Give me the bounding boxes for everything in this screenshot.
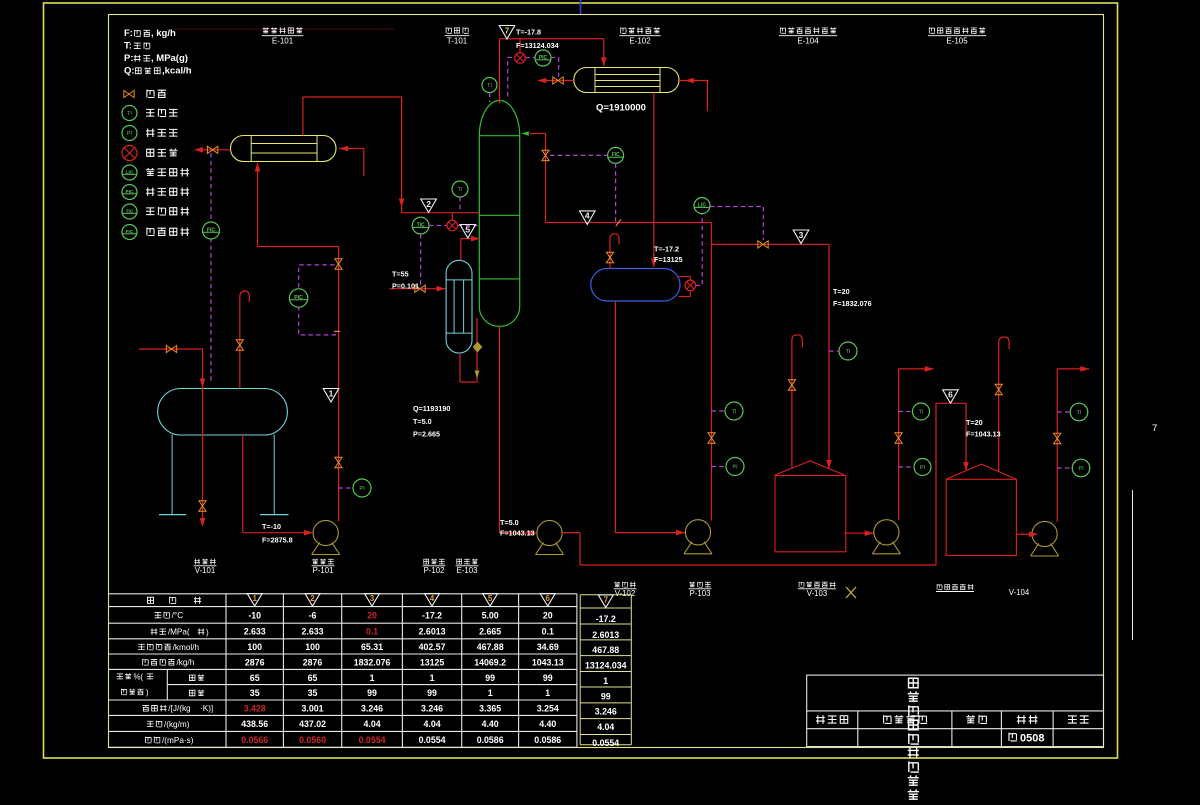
signal TI to feed line [459, 197, 461, 213]
gauge TI on P-103 riser [725, 402, 743, 420]
svg-text:7: 7 [604, 595, 609, 604]
svg-text:): ) [146, 688, 149, 697]
arrow on feed downcomer [399, 199, 405, 208]
signal PI to riser [339, 487, 354, 489]
svg-text:TI: TI [846, 349, 851, 355]
gauge PI on P-103 riser [726, 458, 744, 476]
svg-text:65: 65 [250, 673, 260, 683]
svg-text:V-102: V-102 [615, 589, 635, 598]
label T-101 distillation column [446, 27, 468, 33]
svg-text:0.1: 0.1 [542, 627, 554, 637]
svg-text:LIC: LIC [126, 169, 134, 175]
svg-text:0.1: 0.1 [366, 627, 378, 637]
E-101 tube lines [251, 143, 317, 145]
arrow into E-101 right end [339, 146, 348, 152]
label V-104 bottoms product tank [937, 584, 973, 590]
svg-text:2.633: 2.633 [302, 627, 324, 637]
label V-102 reflux drum [614, 582, 635, 588]
stream marker 4 [580, 211, 596, 225]
svg-text:FIC: FIC [207, 227, 215, 233]
pipe V-104 to P-105 [1016, 533, 1032, 535]
stream marker 2 [421, 199, 437, 213]
transmitter on feed TIC loop [447, 220, 458, 231]
svg-text:P-102: P-102 [424, 566, 445, 575]
svg-text:F=1043.13: F=1043.13 [966, 430, 1001, 439]
svg-text:99: 99 [543, 673, 553, 683]
pump P-105 [1032, 521, 1057, 546]
label E-104 overhead product cooler [780, 27, 836, 33]
svg-text:/(mPa·s): /(mPa·s) [162, 736, 194, 745]
svg-text:14069.2: 14069.2 [474, 657, 506, 667]
gauge TI on feed line [452, 181, 468, 197]
valve on P-101 riser lower [335, 457, 342, 467]
svg-text:65: 65 [308, 673, 318, 683]
svg-text:0.0554: 0.0554 [359, 735, 386, 745]
pipe column bottoms to reboiler loop [476, 318, 478, 382]
svg-text:V-104: V-104 [1009, 588, 1030, 597]
pipe E-102 condensate to V-102 [653, 93, 655, 268]
arrow refrigerant into E-102 [685, 78, 694, 84]
arrow overhead into E-102 [601, 57, 607, 66]
legend transmitter [122, 146, 137, 161]
legend TIC temperature control [122, 204, 137, 219]
valve on raw feed line [166, 345, 176, 352]
arrow into P-103 [676, 530, 685, 536]
arrow into P-104 [865, 530, 874, 536]
controller TIC feed [412, 217, 429, 234]
svg-text:4: 4 [585, 211, 590, 221]
arrow into P-101 [304, 530, 313, 536]
svg-text:3.246: 3.246 [421, 703, 443, 713]
label P-102 bottoms pump [424, 559, 445, 565]
arrow bottoms into V-104 roof [963, 462, 969, 471]
svg-text:E-104: E-104 [797, 37, 819, 46]
stream table grid [109, 593, 577, 595]
controller FIC reflux [608, 147, 624, 163]
svg-text:V-101: V-101 [195, 566, 215, 575]
signal TI to P-104 riser [899, 411, 913, 413]
legend valve symbol [124, 90, 134, 97]
legend PI pressure gauge [122, 126, 137, 141]
svg-text:402.57: 402.57 [419, 642, 446, 652]
arrow condensate into V-102 [651, 259, 657, 268]
svg-text:0.0554: 0.0554 [419, 735, 446, 745]
arrow feed into V-101 [200, 379, 206, 388]
valve on P-101 riser upper [335, 259, 342, 269]
legend PIC pressure control [122, 185, 137, 200]
svg-text:, MPa(g): , MPa(g) [151, 53, 188, 64]
E-103 tube sheets [446, 279, 472, 281]
svg-text:4.40: 4.40 [482, 719, 499, 729]
svg-text:,kcal/h: ,kcal/h [162, 66, 192, 77]
signal TI to P-105 riser [1057, 411, 1070, 413]
pipe V-102 to P-103 suction [614, 301, 616, 533]
valve on E-101 left outlet [207, 146, 217, 153]
svg-text:0.0586: 0.0586 [534, 735, 561, 745]
svg-text:6: 6 [545, 594, 550, 603]
valve on P-104 discharge [895, 433, 902, 443]
signal PIC to E-102 outlet valve [551, 58, 559, 77]
svg-text:-6: -6 [309, 611, 317, 621]
svg-text:/kg/h: /kg/h [177, 658, 195, 667]
gauge PI on P-105 riser [1072, 459, 1090, 477]
svg-text:20: 20 [543, 611, 553, 621]
arrow into E-103 [437, 286, 446, 292]
svg-text:PIC: PIC [294, 295, 303, 301]
reboiler E-103 shell [446, 260, 472, 353]
svg-text:1832.076: 1832.076 [354, 657, 391, 667]
svg-text:-17.2: -17.2 [422, 611, 442, 621]
svg-text:4.40: 4.40 [539, 719, 556, 729]
title block column lines [857, 711, 859, 747]
signal pressure tap to PIC overhead [507, 58, 509, 97]
pump P-103 [685, 520, 710, 545]
svg-text:5.00: 5.00 [482, 611, 499, 621]
pipe P-103 reflux riser [711, 223, 713, 521]
pipe P-102 discharge to V-104 [562, 532, 580, 534]
arrow V-101 drain outlet [200, 518, 206, 527]
table column 7 yellow sub-table [580, 594, 631, 596]
valve on V-101 drain [199, 501, 206, 511]
svg-text:F=13125: F=13125 [654, 255, 683, 264]
svg-text:%(: %( [134, 672, 144, 681]
transmitter on overhead line [515, 53, 526, 64]
stream marker 7 [499, 26, 515, 40]
pump P-101 [313, 520, 338, 545]
svg-text:99: 99 [485, 673, 495, 683]
svg-text:V-103: V-103 [807, 589, 827, 598]
svg-text:T=-10: T=-10 [262, 522, 281, 531]
svg-text:F:: F: [124, 28, 133, 39]
svg-text:6: 6 [948, 390, 953, 400]
red stub feed line to transmitter [451, 213, 453, 221]
red standpipe V-102 level tap lower [679, 291, 691, 297]
gauge TI on V-103 inlet [839, 342, 857, 360]
svg-text:0.0554: 0.0554 [592, 738, 619, 748]
table header stream number label [147, 597, 153, 603]
arrow bottoms product off-page [1080, 366, 1089, 372]
pipe column bottoms to P-102 [499, 326, 501, 533]
svg-text:4: 4 [430, 594, 435, 603]
label E-103 reboiler [457, 559, 478, 565]
valve on V-102 vent [606, 252, 613, 262]
svg-text:0.0560: 0.0560 [299, 735, 326, 745]
pipe raw feed into V-101 and dip tube to drain [139, 348, 203, 350]
label E-102 overhead condenser [621, 27, 660, 33]
valve on E-102 outlet [553, 77, 563, 84]
svg-text:3.254: 3.254 [537, 703, 559, 713]
title block class cell [1017, 715, 1038, 724]
valve on V-101 vent [236, 340, 243, 350]
svg-text:TIC: TIC [126, 208, 134, 214]
svg-text:TI: TI [127, 111, 132, 117]
stream marker 1 [323, 389, 339, 403]
svg-text:Q:: Q: [124, 66, 135, 77]
E-103 tubes [453, 280, 455, 333]
svg-text:100: 100 [305, 642, 320, 652]
svg-text:1: 1 [329, 388, 334, 398]
title block designer cell [816, 715, 848, 724]
gauge TI on P-104 riser [913, 403, 930, 420]
crossing tick on reflux line [616, 219, 621, 226]
signal transmitter to LIC [696, 214, 703, 286]
title block advisor cell [884, 715, 927, 723]
table composition label [117, 673, 132, 679]
gauge PI on P-101 riser [353, 479, 371, 497]
svg-text:13125: 13125 [420, 657, 445, 667]
svg-text:3: 3 [370, 594, 375, 603]
svg-text:F=2875.8: F=2875.8 [262, 536, 293, 545]
svg-text:E-105: E-105 [946, 37, 968, 46]
svg-text:T-101: T-101 [447, 37, 468, 46]
svg-text:5: 5 [488, 594, 493, 603]
pipe column overhead to E-102 [499, 39, 501, 103]
svg-text:Q=1193190: Q=1193190 [413, 404, 450, 413]
svg-text:7: 7 [1152, 423, 1157, 434]
svg-text:34.69: 34.69 [537, 642, 559, 652]
svg-text:TI: TI [458, 187, 463, 193]
E-102 tube sheets [594, 68, 596, 93]
svg-text:/MPa(: /MPa( [168, 628, 190, 637]
pump P-102 [537, 520, 562, 545]
heat exchanger E-101 shell [231, 136, 337, 162]
svg-text:2: 2 [310, 594, 315, 603]
arrow distillate into V-103 roof [826, 460, 832, 469]
valve on V-103 vent [788, 380, 795, 390]
label V-101 feed tank [194, 559, 215, 565]
svg-text:P-101: P-101 [313, 566, 334, 575]
svg-text:3.246: 3.246 [361, 703, 383, 713]
svg-text:T=-17.2: T=-17.2 [654, 245, 679, 254]
svg-text:FIC: FIC [612, 152, 620, 158]
signal TIC to transmitter and column [429, 225, 447, 227]
signal LIC to distillate valve [710, 207, 763, 241]
pipe P-105 discharge product line [1056, 369, 1058, 522]
svg-text:1: 1 [603, 676, 608, 686]
svg-text:T=-17.8: T=-17.8 [516, 28, 541, 37]
svg-text:438.56: 438.56 [241, 719, 268, 729]
svg-text:-10: -10 [248, 611, 261, 621]
svg-text:T:: T: [124, 41, 132, 52]
table row labels [155, 612, 170, 618]
svg-text:2.6013: 2.6013 [592, 630, 619, 640]
svg-text:T=20: T=20 [966, 418, 983, 427]
stray white line right margin [1132, 490, 1134, 640]
gauge TI on P-105 riser [1070, 403, 1088, 421]
svg-text:65.31: 65.31 [361, 642, 383, 652]
arrow refrigerant out [537, 78, 546, 84]
svg-text:467.88: 467.88 [592, 645, 619, 655]
svg-text:F=1832.076: F=1832.076 [833, 299, 872, 308]
svg-text:1: 1 [430, 673, 435, 683]
signal FIC to reflux valve [550, 154, 608, 156]
inner drawing frame [109, 15, 1104, 748]
controller FIC on feed [203, 222, 220, 239]
svg-text:TIC: TIC [417, 222, 425, 228]
svg-text:3.365: 3.365 [479, 703, 501, 713]
arrow into E-101 bottom [255, 163, 261, 172]
svg-text:/°C: /°C [172, 611, 184, 620]
svg-text:7: 7 [505, 25, 510, 35]
overhead product tank V-103 [775, 476, 846, 552]
svg-text:): ) [206, 628, 209, 637]
pipe E-101 refrigerant inlet stub [363, 149, 365, 177]
pipe E-102 refrigerant outlet left [538, 80, 574, 82]
svg-text:P=2.665: P=2.665 [413, 430, 440, 439]
olive diamond mark on reboiler loop [473, 342, 483, 353]
pressure tap stub on overhead line [519, 39, 521, 53]
valve on P-105 discharge [1054, 433, 1061, 443]
level transmitter on V-102 [685, 280, 696, 291]
svg-text:TI: TI [1077, 410, 1082, 416]
legend FIC flow control [122, 225, 137, 240]
pipe distillate to V-103 [712, 243, 830, 245]
svg-text:437.02: 437.02 [299, 719, 326, 729]
distillation column T-101 shell [479, 100, 519, 326]
svg-text:2876: 2876 [245, 657, 265, 667]
signal FIC down to reflux line [615, 163, 617, 221]
legend LIC level control [122, 165, 137, 180]
svg-text:PIC: PIC [539, 55, 548, 61]
signal TI to column dome [489, 93, 491, 103]
pipe reboiler feed with valve [390, 288, 446, 290]
valve on reboiler feed [415, 285, 425, 292]
V-101 left leg [171, 435, 173, 515]
svg-text:0.0586: 0.0586 [477, 735, 504, 745]
T-101 tray section lines [479, 135, 519, 137]
table composition sub-divider [166, 669, 168, 700]
svg-text:0508: 0508 [1020, 733, 1044, 745]
stream marker 5 [460, 225, 476, 239]
title block outline [807, 675, 1104, 747]
label P-103 reflux pump [689, 582, 710, 588]
pump P-104 [874, 520, 899, 545]
pipe heated feed E-101 to column [302, 97, 304, 136]
valve on V-104 vent [995, 384, 1002, 394]
arrow vapor into column [471, 236, 480, 242]
signal PI to P-104 riser [899, 466, 914, 468]
svg-text:3.001: 3.001 [302, 703, 324, 713]
svg-text:FIC: FIC [126, 229, 134, 235]
heat exchanger E-102 shell [574, 68, 679, 93]
valve distillate LIC control [758, 241, 768, 248]
signal TI to V-103 inlet line [829, 350, 839, 352]
svg-text:4.04: 4.04 [597, 722, 614, 732]
green arrow reflux into column [521, 131, 529, 136]
svg-text:467.88: 467.88 [477, 642, 504, 652]
reflux drum V-102 shell [591, 269, 680, 302]
table ethane ethylene labels [189, 675, 204, 681]
svg-text:T=5.0: T=5.0 [500, 518, 519, 527]
valve on P-103 riser [708, 433, 715, 443]
arrow E-101 outlet off-page [194, 147, 203, 153]
svg-text:P=0.101: P=0.101 [392, 282, 419, 291]
bottoms product tank V-104 [946, 479, 1016, 555]
svg-text:PI: PI [1078, 466, 1084, 472]
svg-text:3: 3 [799, 230, 804, 240]
controller PIC on P-101 riser [289, 289, 307, 307]
svg-text:Q=1910000: Q=1910000 [596, 103, 646, 114]
arrow into P-105 [1029, 532, 1038, 538]
svg-text:LIC: LIC [698, 202, 706, 208]
svg-text:99: 99 [367, 688, 377, 698]
svg-text:4.04: 4.04 [363, 719, 380, 729]
svg-text:2.665: 2.665 [479, 627, 501, 637]
pipe E-101 shell-side outlet left [196, 149, 231, 151]
svg-text:E-103: E-103 [457, 566, 478, 575]
controller PIC overhead [535, 50, 551, 66]
pipe P-104 discharge product line [898, 369, 900, 520]
vertical drawing title [909, 678, 919, 688]
label V-103 overhead product tank [799, 582, 835, 588]
svg-text:F=13124.034: F=13124.034 [516, 41, 559, 50]
svg-text:2876: 2876 [303, 657, 323, 667]
svg-text:TI: TI [487, 83, 492, 89]
svg-text:PI: PI [732, 465, 738, 471]
svg-text:0.0566: 0.0566 [241, 735, 268, 745]
V-104 vent riser with hook [999, 337, 1009, 472]
V-102 vent riser with hook [610, 234, 619, 269]
svg-text:1043.13: 1043.13 [532, 657, 564, 667]
svg-text:13124.034: 13124.034 [585, 661, 627, 671]
svg-text:, kg/h: , kg/h [151, 28, 176, 39]
tick at PIC tap [334, 330, 340, 332]
svg-text:3.428: 3.428 [244, 703, 266, 713]
svg-text:1: 1 [488, 688, 493, 698]
svg-text:PI: PI [359, 486, 365, 492]
title block class number [1009, 733, 1017, 741]
pipe E-102 refrigerant inlet right [679, 80, 709, 82]
svg-text:E-102: E-102 [629, 37, 651, 46]
arrow into P-102 [528, 530, 537, 536]
svg-text:T=55: T=55 [392, 270, 409, 279]
signal loop PIC on P-101 riser [299, 265, 337, 335]
E-102 tube lines [595, 74, 660, 76]
signal PI to P-105 riser [1057, 467, 1072, 469]
title block date cell [966, 715, 987, 723]
svg-text:99: 99 [427, 688, 437, 698]
svg-text:4.04: 4.04 [423, 719, 440, 729]
svg-text:/(kg/m): /(kg/m) [164, 720, 190, 729]
svg-text:2: 2 [426, 199, 431, 209]
svg-text:2.633: 2.633 [244, 627, 266, 637]
pipe V-103 to P-104 [844, 532, 873, 534]
yellow X mark [846, 587, 856, 598]
controller LIC on V-102 [694, 198, 710, 214]
svg-text:TI: TI [919, 410, 924, 416]
svg-text:TI: TI [732, 409, 737, 415]
arrow overhead product off-page [925, 366, 934, 372]
svg-text:·K)]: ·K)] [200, 704, 213, 713]
svg-text:3.246: 3.246 [595, 707, 617, 717]
svg-text:P:: P: [124, 53, 134, 64]
svg-text:E-101: E-101 [272, 37, 294, 46]
svg-text:99: 99 [601, 691, 611, 701]
title block row lines [807, 710, 1104, 712]
svg-text:1: 1 [252, 594, 257, 603]
V-103 vent riser with hook [792, 335, 802, 469]
svg-text:5: 5 [465, 224, 470, 234]
signal PI to P-103 riser [712, 466, 727, 468]
faint dark red line top [173, 28, 394, 30]
title block remark cell [1068, 716, 1089, 724]
svg-text:20: 20 [367, 611, 377, 621]
pipe P-101 discharge riser to E-101 [338, 247, 340, 522]
valve on reflux line at column [542, 150, 549, 160]
legend TI thermometer [122, 106, 137, 121]
gauge PI on P-104 riser [914, 459, 931, 476]
svg-text:PI: PI [127, 131, 133, 137]
